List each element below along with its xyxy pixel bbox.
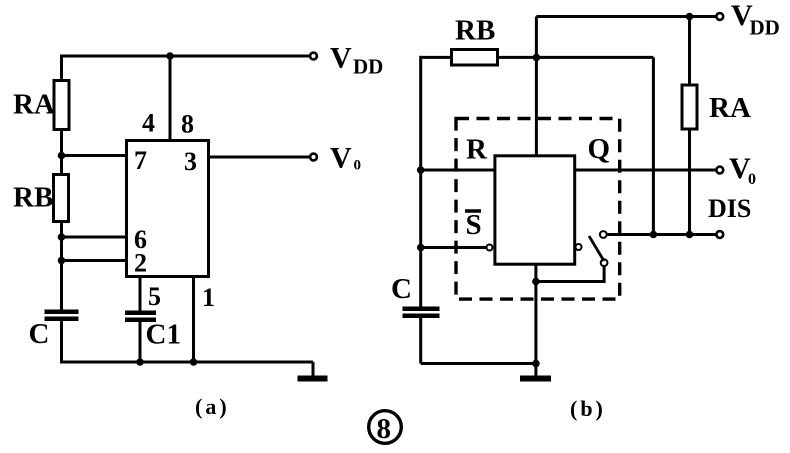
node junction pin6 (a): [58, 233, 66, 241]
wire pin 1 (a): [192, 277, 195, 363]
svg-text:C: C: [391, 273, 412, 305]
inversion bubble Qbar drive (b): [576, 244, 582, 250]
terminal VDD (b): [716, 13, 723, 20]
wire pin 3 output (a): [209, 156, 311, 159]
wire pin 5 lower (a): [139, 322, 142, 362]
wire left rail top segment (a): [60, 55, 63, 83]
wire pin 7 (a): [62, 154, 129, 157]
svg-text:RB: RB: [13, 182, 53, 214]
svg-text:DD: DD: [750, 16, 780, 40]
svg-text:S: S: [466, 209, 482, 241]
wire vertical B from RB rail down to DIS (b): [652, 57, 655, 234]
wire vertical from top rail to flipflop top (b): [535, 17, 538, 158]
svg-text:R: R: [466, 134, 488, 166]
label V0 (a): [330, 142, 361, 175]
wire top rail VDD (a): [62, 55, 311, 58]
svg-text:7: 7: [134, 146, 147, 175]
wire RB rail right part (b): [498, 56, 654, 59]
node junction C1/bottom rail (a): [136, 358, 144, 366]
node junction switch return / center vertical (b): [532, 278, 540, 286]
capacitor C (a): [45, 310, 79, 322]
wire Q output to V0 (b): [575, 169, 717, 172]
wire vertical RA branch lower (b): [688, 129, 691, 235]
svg-text:C: C: [29, 318, 50, 350]
node junction ground (b): [532, 360, 540, 368]
node junction RA/RB/pin7 (a): [58, 152, 66, 160]
node junction RB line / vertical (b): [533, 54, 541, 62]
svg-text:Q: Q: [588, 133, 611, 165]
inversion bubble S input (b): [487, 245, 493, 251]
node junction pin2 (a): [58, 257, 66, 265]
svg-text:5: 5: [148, 282, 161, 311]
wire S input (b): [421, 246, 486, 249]
capacitor C (b): [403, 307, 440, 319]
svg-text:2: 2: [134, 249, 147, 278]
resistor RB (b): [452, 50, 498, 66]
switch top contact (b): [600, 231, 607, 238]
figure number circled 8: [369, 411, 402, 445]
terminal DIS (b): [716, 231, 723, 238]
wire RB rail left part (b): [420, 56, 452, 59]
svg-text:0: 0: [354, 158, 362, 174]
wire top rail VDD (b): [536, 15, 716, 18]
op IC 555 box U1 (a): [127, 141, 209, 277]
terminal V0 (a): [310, 154, 317, 161]
label VDD (a): [330, 42, 383, 79]
wire DIS line (b): [607, 233, 717, 236]
flip-flop box U2 (b): [495, 156, 575, 264]
node junction top rail / pin8 (a): [166, 52, 174, 60]
label S-bar (b): [465, 209, 482, 241]
resistor RA (a): [54, 81, 69, 130]
svg-text:(a): (a): [195, 394, 230, 419]
svg-text:DIS: DIS: [708, 194, 751, 223]
svg-text:8: 8: [181, 110, 194, 139]
capacitor C1 (a): [125, 311, 156, 323]
node junction DIS / RA branch (b): [686, 231, 694, 239]
ground (a): [298, 362, 328, 382]
wire bottom rail (a): [62, 361, 314, 364]
label VDD (b): [731, 0, 780, 40]
wire between RA and node (a): [60, 130, 63, 175]
svg-text:C1: C1: [146, 319, 181, 351]
svg-text:8: 8: [377, 413, 392, 445]
wire R input (b): [421, 169, 496, 172]
svg-text:0: 0: [748, 171, 756, 188]
terminal VDD (a): [310, 53, 317, 60]
wire vertical RA branch upper (b): [688, 17, 691, 87]
wire pin 2 (a): [62, 259, 129, 262]
switch lever (b): [589, 236, 604, 261]
wire pin 6 (a): [62, 236, 129, 239]
node junction pin1/bottom rail (a): [190, 358, 198, 366]
svg-text:4: 4: [142, 109, 155, 138]
svg-text:DD: DD: [353, 55, 383, 79]
wire left rail bottom segment (a): [60, 321, 63, 364]
ground (b): [520, 364, 551, 382]
terminal V0 (b): [716, 167, 723, 174]
svg-text:3: 3: [184, 147, 197, 176]
svg-text:RA: RA: [709, 92, 751, 124]
svg-text:RB: RB: [455, 15, 495, 47]
svg-text:V: V: [330, 142, 352, 175]
svg-text:V: V: [330, 42, 352, 75]
svg-text:1: 1: [202, 283, 215, 312]
wire bottom rail (b): [421, 362, 536, 365]
wire left rail bottom segment (b): [419, 318, 422, 364]
node junction DIS / vertical B (b): [650, 231, 658, 239]
wire pin 8 from top rail (a): [169, 56, 172, 142]
label V0 (b): [729, 152, 756, 188]
wire pin 5 upper (a): [139, 277, 142, 311]
node junction top rail / RA (b): [686, 13, 694, 21]
svg-text:RA: RA: [13, 89, 55, 121]
wire flipflop bottom to ground (b): [534, 264, 537, 363]
wire left rail mid segment (a): [60, 222, 63, 310]
resistor RB (a): [54, 175, 69, 222]
node junction left rail / S wire (b): [417, 244, 425, 252]
node junction left rail / R wire (b): [417, 166, 425, 174]
switch bottom contact (b): [601, 259, 608, 266]
resistor RA (b): [682, 85, 697, 129]
wire left rail (b): [419, 56, 422, 307]
dashed comparator box (b): [456, 119, 620, 300]
svg-text:(b): (b): [570, 396, 606, 421]
wire switch bottom to ground line (b): [536, 266, 604, 281]
